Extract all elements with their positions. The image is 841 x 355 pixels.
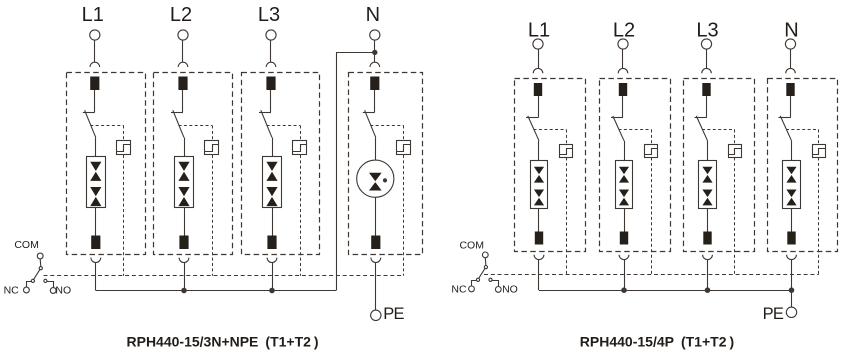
svg-text:PE: PE [763, 305, 784, 323]
svg-text:N: N [784, 20, 798, 42]
svg-text:L3: L3 [696, 20, 718, 42]
svg-text:N: N [366, 4, 380, 26]
svg-text:L3: L3 [258, 4, 280, 26]
svg-text:L2: L2 [170, 4, 192, 26]
svg-text:COM: COM [459, 239, 484, 251]
svg-text:L2: L2 [613, 20, 635, 42]
svg-text:RPH440-15/3N+NPE(T1+T2): RPH440-15/3N+NPE(T1+T2) [127, 334, 319, 350]
svg-text:NO: NO [55, 285, 71, 297]
svg-text:PE: PE [383, 305, 404, 323]
svg-text:COM: COM [14, 239, 39, 251]
svg-text:L1: L1 [82, 4, 104, 26]
svg-text:NC: NC [451, 283, 467, 295]
svg-text:RPH440-15/4P(T1+T2): RPH440-15/4P(T1+T2) [580, 334, 734, 350]
svg-text:L1: L1 [528, 20, 550, 42]
svg-text:NC: NC [4, 285, 20, 297]
svg-text:NO: NO [502, 283, 518, 295]
